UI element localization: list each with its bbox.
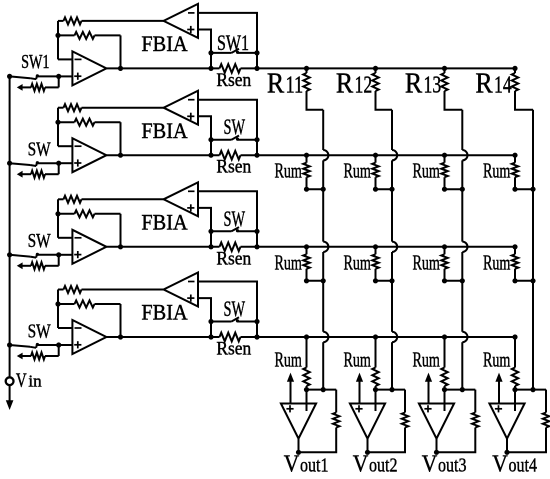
svg-text:11: 11	[286, 71, 304, 98]
resistor col1 output feedback	[299, 390, 340, 453]
resistor Rum row2 col4	[512, 155, 533, 189]
wire FBIA row1 inverting input	[198, 13, 257, 53]
node Rum row2 col2 corner	[373, 187, 378, 192]
svg-text:Rum: Rum	[344, 348, 372, 372]
label Vout2	[353, 451, 398, 478]
node col3 column bottom	[460, 387, 465, 392]
svg-text:Rum: Rum	[483, 250, 511, 274]
label Vin	[16, 370, 42, 392]
svg-text:Rsen: Rsen	[216, 339, 251, 360]
wire row2 horizontal line	[106, 154, 515, 156]
node col4 output	[504, 450, 509, 455]
svg-text:SW1: SW1	[217, 30, 249, 55]
node col1 output	[296, 450, 301, 455]
wire row2 Rsen left leg	[210, 140, 212, 156]
label R13	[405, 68, 441, 99]
resistor row1 op-amp feedback	[58, 32, 121, 69]
node row2 Rsen right	[254, 153, 259, 158]
node row3 Rsen right upper	[254, 229, 259, 234]
svg-text:Rum: Rum	[275, 348, 303, 372]
switch SW row2 input	[10, 161, 59, 166]
wire row3 horizontal line	[106, 246, 515, 248]
node row1 feedback junction	[55, 33, 60, 38]
wire row1 Rsen left leg	[210, 53, 212, 69]
source Vin terminal circle	[6, 377, 14, 385]
wire FBIA row4 inverting input	[198, 282, 257, 322]
wire row1 horizontal line	[106, 67, 515, 69]
svg-text:SW1: SW1	[21, 51, 49, 73]
wire col2 bottom junction	[376, 389, 406, 391]
node col1 Rum bottom	[304, 387, 309, 392]
svg-text:FBIA: FBIA	[141, 32, 187, 56]
label Vout3	[422, 451, 467, 478]
wire col2 amp output	[367, 439, 369, 453]
switch SW1 row1 input	[10, 74, 59, 79]
node Rum row2 col3 top	[442, 153, 447, 158]
node Rum row3 col2 top	[373, 244, 378, 249]
resistor row3 op-amp feedback	[58, 210, 121, 247]
node Rum row3 col2 corner	[373, 278, 378, 283]
node row3 noninverting junction	[56, 252, 61, 257]
wire row3 Rsen left leg	[210, 231, 212, 247]
resistor Rum row2 col3	[441, 155, 462, 189]
node col3 Rum bottom	[442, 387, 447, 392]
svg-text:Rum: Rum	[483, 159, 511, 183]
node Rum row3 col3 top	[442, 244, 447, 249]
svg-text:out1: out1	[300, 455, 329, 477]
svg-text:Rum: Rum	[413, 159, 441, 183]
node Rum row2 col1 junction	[321, 187, 326, 192]
svg-text:V: V	[492, 451, 508, 478]
resistor Rsen row2	[220, 151, 241, 160]
wire row1 noninverting input	[59, 75, 73, 77]
op-amp A1	[72, 51, 106, 85]
svg-text:SW: SW	[28, 230, 52, 252]
node row1 op-amp output	[118, 66, 123, 71]
wire FBIA row2 inverting input	[198, 100, 257, 140]
svg-text:V: V	[353, 451, 369, 478]
svg-text:Rum: Rum	[483, 348, 511, 372]
node row3 Rsen right	[254, 244, 259, 249]
op-amp output buffer col3	[419, 404, 454, 439]
node bus row3	[7, 252, 12, 257]
svg-text:out3: out3	[438, 455, 467, 477]
node Rum row2 col3 corner	[442, 187, 447, 192]
node R11 top	[304, 66, 309, 71]
node Rum row2 col3 junction	[460, 187, 465, 192]
svg-text:SW: SW	[224, 114, 246, 139]
node R12 top	[373, 66, 378, 71]
wire col1 amp output	[298, 439, 300, 453]
node Rum row3 col4 corner	[512, 278, 517, 283]
wire col3 bottom junction	[445, 389, 476, 391]
node row4 feedback junction	[55, 301, 60, 306]
wire column 1 vertical with hops	[323, 110, 328, 390]
resistor row1 top feedback	[58, 17, 164, 24]
node Rum row2 col1 top	[304, 153, 309, 158]
resistor Rum row2 col2	[372, 155, 392, 189]
resistor Rum row4 col4	[512, 337, 518, 390]
wire column 3 vertical with hops	[462, 110, 467, 390]
label R12	[336, 68, 372, 99]
svg-text:Rsen: Rsen	[216, 70, 251, 91]
wire row3 inverting branch	[58, 199, 72, 238]
node bus row1	[7, 74, 12, 79]
switch SW row3 feedback	[211, 227, 257, 232]
wire col3 amp inverting input	[444, 390, 446, 411]
wire column 2 vertical with hops	[392, 110, 397, 390]
node Rum row2 col1 corner	[304, 187, 309, 192]
svg-text:12: 12	[355, 71, 373, 98]
node Rum row3 col1 corner	[304, 278, 309, 283]
node row3 op-amp output	[118, 244, 123, 249]
resistor Rsen row1	[220, 64, 241, 73]
wire FBIA row3 inverting input	[198, 191, 257, 231]
arrow col2 reference input	[356, 373, 363, 404]
node row3 Rsen left	[208, 244, 213, 249]
node Rum row3 col1 junction	[321, 278, 326, 283]
resistor Rsen row3	[220, 243, 241, 252]
node Rum row2 col4 corner	[512, 187, 517, 192]
wire row2 Rsen right leg	[256, 140, 258, 156]
resistor Rum row2 col1	[303, 155, 323, 189]
svg-text:R: R	[405, 68, 423, 99]
wire below Vin terminal	[9, 385, 11, 401]
svg-text:SW: SW	[224, 296, 246, 321]
switch SW row4 input	[10, 343, 59, 348]
node Rum row4 col1 top	[304, 334, 309, 339]
svg-text:Rum: Rum	[275, 250, 303, 274]
resistor Rum row3 col1	[303, 247, 323, 281]
wire row4 Rsen right leg	[256, 322, 258, 338]
op-amp output buffer col1	[281, 404, 316, 439]
node row4 Rsen left upper	[208, 319, 213, 324]
svg-text:Rum: Rum	[344, 159, 372, 183]
resistor Rum row4 col3	[441, 337, 447, 390]
node row4 Rsen left	[208, 334, 213, 339]
resistor R12	[372, 68, 392, 109]
svg-text:SW: SW	[28, 139, 52, 161]
label R14	[475, 68, 511, 99]
node Rum row3 col3 junction	[460, 278, 465, 283]
resistor col2 output feedback	[368, 390, 409, 453]
resistor row2 top feedback	[58, 104, 164, 111]
wire FBIA row3 noninverting input	[198, 208, 211, 231]
svg-text:Rsen: Rsen	[216, 157, 251, 178]
node row2 feedback junction	[55, 120, 60, 125]
wire row4 noninverting input	[59, 344, 73, 346]
svg-text:out4: out4	[509, 455, 538, 477]
svg-text:Rum: Rum	[413, 250, 441, 274]
node Rum row2 col2 top	[373, 153, 378, 158]
node Rum row3 col1 top	[304, 244, 309, 249]
svg-text:13: 13	[424, 71, 442, 98]
label Vout1	[284, 451, 329, 478]
resistor with arrow row2	[17, 163, 59, 178]
switch SW row2 feedback	[211, 136, 257, 141]
wire col4 amp output	[506, 439, 508, 453]
svg-text:Rum: Rum	[275, 159, 303, 183]
svg-text:R: R	[267, 68, 285, 99]
resistor with arrow row1	[17, 76, 59, 91]
resistor Rum row3 col2	[372, 247, 392, 281]
node Rum row3 col4 junction	[530, 278, 535, 283]
op-amp A2	[72, 138, 106, 172]
node col1 column bottom	[321, 387, 326, 392]
node row2 Rsen left upper	[208, 137, 213, 142]
node col4 column bottom	[530, 387, 535, 392]
wire col1 bottom junction	[307, 389, 337, 391]
resistor R11	[303, 68, 323, 109]
svg-text:FBIA: FBIA	[141, 119, 187, 143]
node Rum row3 col4 top	[512, 244, 517, 249]
wire col1 amp inverting input	[306, 390, 308, 411]
svg-text:SW: SW	[28, 320, 52, 342]
node Rum row2 col4 top	[512, 153, 517, 158]
svg-text:FBIA: FBIA	[141, 211, 187, 235]
wire col3 amp output	[436, 439, 438, 453]
node col2 Rum bottom	[373, 387, 378, 392]
resistor Rum row4 col1	[303, 337, 309, 390]
op-amp FBIA row3	[164, 182, 198, 216]
wire row1 Rsen right leg	[256, 53, 258, 69]
arrow Vin down	[6, 400, 14, 410]
node row1 Rsen right upper	[254, 50, 259, 55]
node bus row2	[7, 161, 12, 166]
svg-text:R: R	[475, 68, 493, 99]
resistor row2 op-amp feedback	[58, 119, 121, 156]
svg-text:R: R	[336, 68, 354, 99]
node row4 Rsen right	[254, 334, 259, 339]
svg-text:Rum: Rum	[344, 250, 372, 274]
svg-text:FBIA: FBIA	[141, 301, 187, 325]
node row1 noninverting junction	[56, 74, 61, 79]
op-amp output buffer col2	[350, 404, 385, 439]
wire Vin bus vertical	[9, 76, 11, 377]
label R11	[267, 68, 303, 99]
wire row3 Rsen right leg	[256, 231, 258, 247]
resistor Rum row3 col3	[441, 247, 462, 281]
svg-text:V: V	[16, 370, 27, 392]
wire FBIA row4 noninverting input	[198, 298, 211, 321]
wire row4 Rsen left leg	[210, 322, 212, 338]
resistor col4 output feedback	[507, 390, 549, 453]
wire row2 inverting branch	[58, 108, 72, 147]
svg-text:Rum: Rum	[413, 348, 441, 372]
node Rum row2 col2 junction	[389, 187, 394, 192]
svg-text:SW: SW	[224, 206, 246, 231]
svg-text:out2: out2	[369, 455, 398, 477]
node R14 top	[512, 66, 517, 71]
node col2 column bottom	[389, 387, 394, 392]
wire row1 inverting branch	[58, 21, 72, 60]
op-amp A4	[72, 320, 106, 354]
wire row3 noninverting input	[59, 254, 73, 256]
wire col2 amp inverting input	[375, 390, 377, 411]
node Rum row4 col4 top	[512, 334, 517, 339]
resistor with arrow row4	[17, 345, 59, 360]
svg-text:V: V	[422, 451, 438, 478]
node Rum row3 col2 junction	[389, 278, 394, 283]
resistor Rum row4 col2	[372, 337, 378, 390]
svg-text:in: in	[28, 372, 42, 391]
node row3 feedback junction	[55, 211, 60, 216]
node row2 Rsen right upper	[254, 137, 259, 142]
switch SW row4 feedback	[211, 317, 257, 322]
op-amp output buffer col4	[489, 404, 524, 439]
switch SW row3 input	[10, 253, 59, 258]
node row2 Rsen left	[208, 153, 213, 158]
node row1 Rsen right	[254, 66, 259, 71]
resistor with arrow row3	[17, 255, 59, 269]
resistor col3 output feedback	[437, 390, 479, 453]
node col3 output	[434, 450, 439, 455]
node Rum row3 col3 corner	[442, 278, 447, 283]
node row2 noninverting junction	[56, 161, 61, 166]
resistor R14	[512, 68, 533, 109]
node col2 output	[365, 450, 370, 455]
node row4 Rsen right upper	[254, 319, 259, 324]
node Rum row2 col4 junction	[530, 187, 535, 192]
arrow col3 reference input	[425, 373, 432, 404]
node Rum row4 col3 top	[442, 334, 447, 339]
op-amp FBIA row4	[164, 273, 198, 307]
node row4 noninverting junction	[56, 342, 61, 347]
wire FBIA row1 noninverting input	[198, 30, 211, 53]
node bus row4	[7, 342, 12, 347]
arrow col4 reference input	[495, 373, 502, 404]
node row3 Rsen left upper	[208, 229, 213, 234]
op-amp FBIA row1	[164, 4, 198, 38]
wire FBIA row2 noninverting input	[198, 116, 211, 139]
wire row4 inverting branch	[58, 290, 72, 329]
wire row4 horizontal line	[106, 336, 515, 338]
node R13 top	[442, 66, 447, 71]
wire column 4 vertical with hops	[532, 110, 534, 390]
node row1 Rsen left upper	[208, 50, 213, 55]
op-amp FBIA row2	[164, 91, 198, 125]
arrow col1 reference input	[287, 373, 294, 404]
svg-text:14: 14	[494, 71, 512, 98]
node Rum row4 col2 top	[373, 334, 378, 339]
wire col4 bottom junction	[515, 389, 546, 391]
node row1 Rsen left	[208, 66, 213, 71]
node row4 op-amp output	[118, 334, 123, 339]
svg-text:Rsen: Rsen	[216, 248, 251, 269]
resistor row4 top feedback	[58, 286, 164, 293]
op-amp A3	[72, 230, 106, 264]
wire row2 noninverting input	[59, 162, 73, 164]
resistor row3 top feedback	[58, 196, 164, 203]
svg-text:V: V	[284, 451, 300, 478]
resistor Rum row3 col4	[512, 247, 533, 281]
wire col4 amp inverting input	[514, 390, 516, 411]
node row2 op-amp output	[118, 153, 123, 158]
resistor row4 op-amp feedback	[58, 301, 121, 338]
resistor R13	[441, 68, 462, 109]
node col4 Rum bottom	[512, 387, 517, 392]
switch SW1 row1 feedback	[211, 49, 257, 54]
label Vout4	[492, 451, 537, 478]
resistor Rsen row4	[220, 333, 241, 342]
